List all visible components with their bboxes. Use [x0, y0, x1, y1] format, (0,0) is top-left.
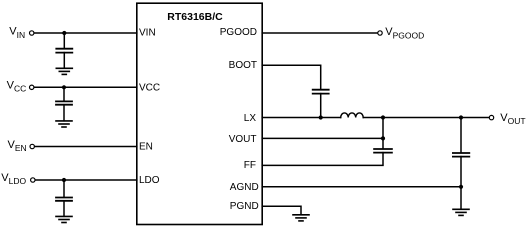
- node junction AGND: [459, 185, 463, 189]
- wire EN input: [35, 146, 137, 148]
- node junction VIN cap: [62, 31, 66, 35]
- wire VCC input: [34, 86, 136, 88]
- svg-text:RT6316B/C: RT6316B/C: [167, 11, 223, 23]
- wire output cap to ground: [460, 157, 462, 210]
- svg-text:LDO: LDO: [139, 175, 160, 186]
- capacitor C_IN branch: [63, 33, 65, 49]
- svg-text:AGND: AGND: [230, 182, 259, 193]
- svg-text:FF: FF: [244, 160, 256, 171]
- capacitor C_VCC: [56, 101, 72, 104]
- capacitor C_LDO: [56, 198, 72, 201]
- capacitor C_BOOT: [313, 90, 329, 94]
- capacitor C_IN: [56, 49, 72, 53]
- terminal VIN: [30, 31, 34, 35]
- svg-text:EN: EN: [139, 142, 153, 153]
- svg-text:PGND: PGND: [230, 201, 259, 212]
- wire VOUT pin: [262, 137, 383, 139]
- wire FF cap branch vertical: [382, 118, 384, 149]
- svg-text:PGOOD: PGOOD: [220, 27, 257, 38]
- wire output cap branch vertical: [460, 118, 462, 153]
- wire BOOT cap to LX: [320, 94, 322, 118]
- wire LX to inductor: [262, 117, 341, 119]
- node junction VOUT pin: [381, 136, 385, 140]
- wire C_IN to ground: [63, 53, 65, 69]
- wire BOOT: [262, 65, 321, 89]
- node junction BOOT/LX: [319, 115, 323, 119]
- wire VIN input: [34, 32, 136, 34]
- capacitor C_VCC branch: [63, 87, 65, 101]
- capacitor C_FF: [374, 149, 392, 153]
- svg-text:VPGOOD: VPGOOD: [385, 26, 424, 41]
- svg-text:VOUT: VOUT: [500, 112, 525, 126]
- IC U1 RT6316B/C body: [137, 3, 262, 224]
- ground C_LDO: [56, 216, 72, 222]
- inductor L1: [341, 113, 364, 118]
- terminal PGOOD: [378, 31, 382, 35]
- ground PGND: [293, 215, 309, 221]
- svg-text:BOOT: BOOT: [229, 60, 257, 71]
- wire LDO input: [36, 179, 137, 181]
- wire FF pin: [262, 153, 383, 166]
- terminal VOUT: [489, 115, 493, 119]
- terminal LDO: [31, 178, 35, 182]
- terminal VCC: [30, 85, 34, 89]
- wire inductor to VOUT terminal: [363, 117, 489, 119]
- svg-text:VEN: VEN: [8, 139, 27, 153]
- wire AGND pin: [262, 186, 461, 188]
- svg-text:VCC: VCC: [139, 82, 160, 93]
- wire PGND pin: [262, 206, 301, 214]
- wire PGOOD output: [262, 32, 377, 34]
- svg-text:LX: LX: [244, 113, 257, 124]
- svg-text:VCC: VCC: [7, 80, 27, 94]
- capacitor C_LDO branch: [63, 180, 65, 197]
- node junction LX/FF branch: [381, 115, 385, 119]
- wire C_VCC to ground: [63, 105, 65, 121]
- ground output: [453, 209, 469, 215]
- svg-text:VIN: VIN: [139, 28, 156, 39]
- node junction output cap top: [459, 115, 463, 119]
- node junction LDO cap: [62, 178, 66, 182]
- svg-text:VLDO: VLDO: [1, 172, 26, 186]
- svg-text:VOUT: VOUT: [229, 134, 257, 145]
- svg-text:VIN: VIN: [9, 25, 25, 40]
- ground C_VCC: [56, 121, 72, 127]
- terminal EN: [30, 144, 34, 148]
- ground C_IN: [56, 68, 72, 74]
- wire C_LDO to ground: [63, 201, 65, 217]
- capacitor C_OUT: [453, 153, 469, 157]
- node junction VCC cap: [62, 85, 66, 89]
